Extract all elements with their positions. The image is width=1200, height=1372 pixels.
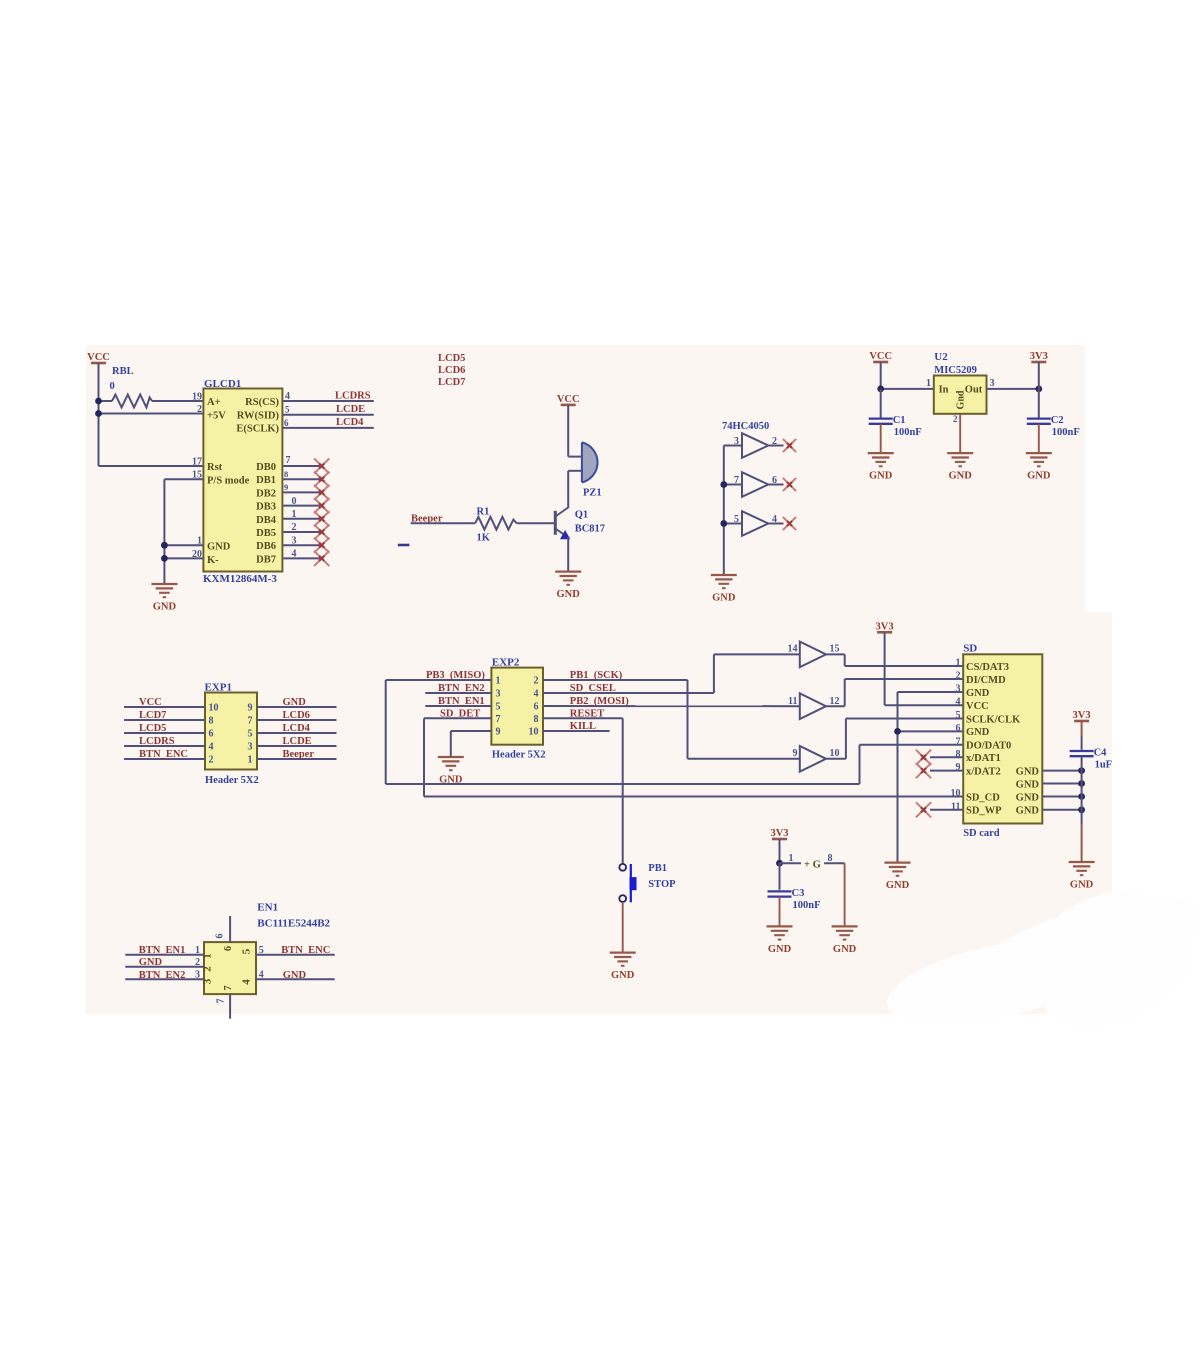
wire VCC rail to U2 [881,388,934,390]
GLCD1 left pin numbers [192,392,202,561]
pin number 8 (G) [828,853,833,864]
power 3V3 (U2) [1030,351,1048,362]
svg-text:2: 2 [195,957,200,968]
wire GLCD1 ground rail vertical [163,479,165,584]
svg-text:DB1: DB1 [256,475,276,486]
svg-text:5: 5 [240,948,252,954]
net label LCDE [283,736,312,747]
svg-text:CS/DAT3: CS/DAT3 [966,662,1009,673]
resistor RBL designator [110,366,134,392]
svg-text:SCLK/CLK: SCLK/CLK [966,714,1021,725]
svg-text:R1: R1 [477,507,490,518]
svg-text:MIC5209: MIC5209 [934,365,977,376]
junction VCC/C1 [877,386,884,393]
svg-text:4: 4 [209,742,214,753]
wire SD GND pin 1 [1042,770,1081,772]
power 3V3 (SD) [876,621,894,632]
wire 3V3 to rail [1038,362,1040,389]
svg-text:3: 3 [202,978,214,984]
svg-text:100nF: 100nF [1052,427,1080,438]
EN1 pin number 6 inside [223,946,234,951]
svg-text:GND: GND [869,471,893,482]
net label BTN_EN2 [438,683,485,694]
svg-text:10: 10 [951,788,961,799]
svg-text:PZ1: PZ1 [583,488,602,499]
wire EXP1 pin 3 [257,745,337,747]
wire VCC to GLCD1 pin 2 [99,413,204,415]
wire GLCD1 DB3 [283,505,321,507]
svg-text:BTN_EN2: BTN_EN2 [438,683,485,694]
no-connect X on DB3 [314,498,329,513]
ground (C1) [868,453,894,482]
resistor R1 [475,517,516,530]
EN1 pin number 7 outside [216,999,227,1004]
svg-text:Rst: Rst [207,462,223,473]
wire Beeper to R1 [411,522,476,524]
svg-text:3: 3 [990,378,995,389]
svg-text:Out: Out [965,385,983,396]
svg-text:GLCD1: GLCD1 [204,378,241,390]
svg-text:3V3: 3V3 [1030,351,1048,362]
svg-text:1: 1 [956,658,961,669]
wire EXP2 pin 9 to ground [451,730,492,732]
wire VCC to RBL [99,400,113,402]
svg-text:VCC: VCC [966,701,989,712]
net label RESET [570,709,604,720]
wire EN1 pin 2 [125,966,204,968]
wire U2 Out to 3V3 [987,388,1039,390]
svg-text:GND: GND [1016,806,1040,817]
net label PB1_(SCK) [570,670,623,681]
wire node to G pin 1 [780,862,802,864]
svg-text:DB2: DB2 [256,488,276,499]
wire MISO vertical [385,680,387,784]
no-connect X x/DAT2 [916,763,931,778]
svg-text:3: 3 [195,970,200,981]
wire GLCD1 pin 15 to ground rail [164,478,203,480]
svg-text:1: 1 [926,378,931,389]
svg-text:6: 6 [223,946,234,951]
EXP1 pin numbers [209,703,253,766]
svg-text:LCD6: LCD6 [438,365,465,376]
wire SD_CD run [424,796,963,798]
net label KILL [570,721,596,732]
net label SD_CSEL [570,683,616,694]
svg-text:GND: GND [611,970,635,981]
svg-text:6: 6 [215,934,226,939]
svg-text:9: 9 [793,748,798,759]
svg-text:5: 5 [496,702,501,713]
svg-text:RESET: RESET [570,709,604,720]
svg-text:LCD7: LCD7 [438,377,465,388]
no-connect X pin 4 [783,517,796,530]
wire U3A output [768,445,783,447]
GLCD1 right pin names [236,397,279,435]
wire EN1 pin 6 top [229,916,231,942]
wire SD gnd rail [897,692,899,863]
svg-text:VCC: VCC [139,697,162,708]
wire C2 top [1038,389,1040,418]
wire C4 rail [1081,756,1083,862]
wire G pin 8 to ground [844,863,846,926]
wire EXP1 pin 4 [124,745,205,747]
svg-text:GND: GND [966,727,990,738]
svg-text:In: In [939,385,949,396]
GLCD1 pin numbers 4,5,6 [284,391,290,428]
svg-text:1: 1 [202,953,214,959]
GLCD1 left pin names [207,397,250,566]
resistor RBL [112,395,152,408]
GLCD1 designator [204,378,241,390]
capacitor C1 100nF [869,415,922,438]
net label PB2_(MOSI) [570,696,629,707]
svg-text:KILL: KILL [570,721,596,732]
ground (EXP2) [438,757,464,786]
capacitor C2 100nF [1027,415,1080,438]
EN1 pin number 6 outside [215,934,226,939]
net label BTN_EN1 [139,945,186,956]
svg-text:GND: GND [1016,766,1040,777]
pin numbers 11/12 [788,696,839,707]
svg-text:C3: C3 [792,888,805,899]
Q1 designator [575,509,588,520]
wire VCC rail to GLCD1 pin 17 [99,465,204,467]
wire EXP2 pin 10 KILL [543,730,610,732]
svg-text:3: 3 [496,689,501,700]
svg-text:DI/CMD: DI/CMD [966,675,1006,686]
wire EXP1 pin 10 [124,706,205,708]
wire GLCD1 E(SCLK) net LCD4 [282,427,373,429]
svg-text:8: 8 [209,716,214,727]
wire VCC to PZ1 pin 1 [567,405,569,457]
svg-text:2: 2 [202,966,214,972]
svg-text:3V3: 3V3 [876,621,894,632]
svg-text:KXM12864M-3: KXM12864M-3 [203,573,277,585]
junction GND/pin1 [161,542,168,549]
svg-text:SD_WP: SD_WP [966,806,1002,817]
pushbutton PB1 actuator [630,864,637,902]
junction 3V3/C2 [1035,386,1042,393]
svg-text:LCD5: LCD5 [438,353,465,364]
pin number 1 (G) [789,853,794,864]
net label VCC [139,697,162,708]
svg-text:8: 8 [534,714,539,725]
svg-text:8: 8 [284,469,288,479]
no-connect X x/DAT1 [916,750,931,765]
svg-text:9: 9 [248,703,253,714]
svg-text:1uF: 1uF [1095,760,1113,771]
svg-text:2: 2 [534,676,539,687]
svg-text:3: 3 [734,436,739,447]
wire PZ1 pin1 stub [568,456,582,458]
svg-text:BTN_EN1: BTN_EN1 [139,945,186,956]
transistor Q1 [555,508,569,539]
wire PB1(SCK) to buffer 9 [688,758,800,760]
no-connect X on DB6 [314,538,329,553]
svg-text:GND: GND [833,944,857,955]
U2 designator [934,351,948,363]
EXP2 Header 5X2 label [492,750,546,761]
ground (C2) [1026,453,1052,482]
svg-text:1K: 1K [477,533,491,544]
svg-text:4: 4 [956,697,961,708]
svg-text:7: 7 [216,999,227,1004]
wire PB1 to ground [622,902,624,953]
no-connect X SD_WP [916,802,931,817]
svg-text:DB6: DB6 [256,541,276,552]
wire VCC to U2 In [880,362,882,389]
svg-text:RS(CS): RS(CS) [245,397,279,408]
power VCC (GLCD1) [87,352,110,363]
svg-text:SD: SD [963,643,977,655]
wire SCLK/CLK in [846,718,963,720]
header EXP2 [491,668,543,745]
svg-text:STOP: STOP [648,879,676,890]
net label LCD6 [283,710,310,721]
component +G [804,860,821,871]
wire U2 Gnd to ground [959,414,961,453]
U2 pin number 1 [926,378,931,389]
wire buffer 12 out [826,705,845,707]
wire SD_CSEL to buffer 14 [714,653,800,655]
svg-text:BTN_ENC: BTN_ENC [281,945,330,956]
EXP2 designator [492,657,520,669]
SD pin numbers [951,658,961,813]
ground (G) [832,926,858,955]
pushbutton PB1 terminal 2 [619,895,626,902]
no-connect X on DB5 [314,524,329,539]
no-connect X on DB2 [314,485,329,500]
capacitor C3 100nF [768,888,821,911]
wire buffer 10 jog [845,719,847,759]
power VCC (buzzer) [557,394,580,405]
svg-text:7: 7 [223,986,234,991]
PB1 designator [648,863,667,874]
svg-text:C2: C2 [1051,415,1064,426]
wire PB1(SCK) drop [687,680,689,759]
wire EXP2 pin 5 [425,705,491,707]
wire GLCD1 RS(CS) net LCDRS [282,400,373,402]
U2 pin number 3 [990,378,995,389]
74HC4050 designator [722,421,769,432]
svg-text:DB0: DB0 [256,462,276,473]
ground (GLCD1) [151,584,177,613]
wire EXP2 pin 9 ground drop [450,731,452,757]
svg-text:U2: U2 [934,351,948,363]
pin numbers 7/6 [734,475,777,486]
svg-text:15: 15 [830,644,840,655]
net label LCD4 [336,417,364,428]
svg-text:6: 6 [534,702,539,713]
svg-text:C1: C1 [893,415,906,426]
net label GND [283,697,307,708]
svg-text:LCDRS: LCDRS [139,736,175,747]
net label BTN_ENC [139,749,188,760]
svg-text:1: 1 [789,853,794,864]
junction C4 rail [1078,780,1085,787]
wire GLCD1 DB7 [283,557,321,559]
svg-text:E(SCLK): E(SCLK) [236,424,279,435]
wire 3V3 to SD VCC [885,704,964,706]
wire MISO horizontal run [386,783,860,785]
pin numbers 9/10 [793,748,840,759]
svg-text:2: 2 [953,414,958,424]
svg-text:4: 4 [259,970,264,981]
svg-text:19: 19 [192,392,202,403]
wire 3V3 to C4 [1081,721,1083,750]
svg-text:4: 4 [534,689,539,700]
svg-text:x/DAT2: x/DAT2 [966,766,1001,777]
ground (PB1) [610,953,636,982]
svg-text:C4: C4 [1094,748,1108,759]
GLCD1 pin numbers 7-14 [284,455,297,560]
svg-text:2: 2 [956,671,961,682]
svg-text:EXP1: EXP1 [205,682,233,694]
svg-text:GND: GND [1027,471,1051,482]
svg-text:3V3: 3V3 [770,828,788,839]
svg-text:10: 10 [529,727,539,738]
svg-text:GND: GND [283,970,307,981]
wire GLCD1 pin 20 K- [164,557,203,559]
svg-text:DO/DAT0: DO/DAT0 [966,741,1011,752]
pin numbers 3/2 [734,436,777,447]
Q1 part BC817 [575,524,605,535]
wire SD_DET vertical [423,718,425,796]
net label LCDRS [139,736,175,747]
U2 pin number 2 [953,414,958,424]
wire GLCD1 DB2 [283,491,321,493]
wire C3 to ground [779,897,781,927]
wire EXP2 pin 3 [425,692,491,694]
svg-text:3V3: 3V3 [1073,710,1091,721]
EXP2 pin numbers [496,676,539,738]
svg-text:10: 10 [209,703,219,714]
sd connector SD [963,654,1042,823]
net label BTN_ENC [281,945,330,956]
wire RESET drop to PB1 [622,718,624,864]
svg-text:LCDRS: LCDRS [335,391,371,402]
wire PB3 (MISO) to EXP2 pin 1 [386,679,492,681]
svg-text:11: 11 [788,696,797,707]
net label LCD6 [438,365,465,376]
svg-text:GND: GND [768,944,792,955]
R1 value 1K [477,533,491,544]
svg-text:DB3: DB3 [256,502,276,513]
capacitor C4 1uF [1070,748,1113,771]
svg-text:GND: GND [153,602,177,613]
net label GND (EN1 pin2) [139,957,163,968]
junction GND/pin20 [161,555,168,562]
buffer U3C (pins 5-4) [742,511,768,536]
wire GLCD1 DB1 [283,478,321,480]
wire RBL to GLCD1 pin 19 [152,400,203,402]
wire SD GND pin 2 [1042,783,1081,785]
svg-text:9: 9 [496,727,501,738]
power 3V3 (C3) [770,828,788,839]
net label GND (EN1 pin4) [283,970,307,981]
wire PZ1 pin2 stub [568,470,582,472]
svg-text:VCC: VCC [87,352,110,363]
wire EN1 pin 1 [125,954,204,956]
junction SD gnd rail [894,728,901,735]
svg-text:DB4: DB4 [256,515,277,526]
wire EXP1 pin 9 [257,706,337,708]
svg-text:5: 5 [259,945,264,956]
wire EN1 pin 5 [256,954,335,956]
ground (U2) [947,453,973,482]
wire GLCD1 DB5 [283,531,321,533]
svg-text:LCDE: LCDE [283,736,312,747]
wire rail to U3A input [724,445,742,447]
svg-text:PB3_(MISO): PB3_(MISO) [426,670,485,681]
U2 pin names [939,385,983,410]
svg-text:BTN_EN2: BTN_EN2 [139,970,186,981]
junction C3 [776,860,783,867]
net label LCD4 [283,723,311,734]
wire SD x/DAT1 [930,756,963,758]
wire GLCD1 DB0 [283,465,321,467]
wire SD_DET to EXP2 pin 7 [424,717,491,719]
svg-text:3: 3 [248,742,253,753]
wire EXP1 pin 1 [257,758,337,760]
EN1 outside pin numbers [195,945,264,981]
svg-text:2: 2 [197,404,202,415]
no-connect X on DB0 [314,458,329,473]
svg-text:GND: GND [886,880,910,891]
wire EXP1 pin 5 [257,732,337,734]
svg-text:PB1_(SCK): PB1_(SCK) [570,670,623,681]
svg-text:BTN_ENC: BTN_ENC [139,749,188,760]
svg-text:7: 7 [496,714,501,725]
wire DI/CMD in [845,678,964,680]
svg-text:LCDE: LCDE [336,404,365,415]
PZ1 designator [583,488,602,499]
svg-text:GND: GND [949,471,973,482]
svg-text:6: 6 [956,723,961,734]
net label BTN_EN2 [139,970,186,981]
svg-text:RW(SID): RW(SID) [237,411,280,422]
wire G pin 8 [824,862,845,864]
regulator U2 MIC5209 [934,376,987,414]
wire buffer 15 jog [844,654,846,666]
svg-text:GND: GND [207,542,231,553]
wire GLCD1 pin 1 GND [164,544,203,546]
ground (C4) [1069,862,1095,891]
svg-text:LCD6: LCD6 [283,710,310,721]
ground (74HC4050) [711,575,737,604]
junction rail/U3B [720,481,727,488]
ground (C3) [767,926,793,955]
PB1 label STOP [648,879,676,890]
svg-text:GND: GND [139,957,163,968]
svg-text:GND: GND [1016,779,1040,790]
net label Beeper [411,514,443,525]
EN1 designator [257,902,278,914]
EXP1 designator [205,682,233,694]
power VCC (U2) [869,351,892,362]
svg-text:SD_CD: SD_CD [966,792,1000,803]
wire C2 to ground [1038,424,1040,453]
pin numbers 14/15 [788,644,840,655]
svg-text:17: 17 [192,457,202,468]
svg-text:1: 1 [195,945,200,956]
pin numbers 5/4 [734,514,777,525]
U2 part MIC5209 [934,365,977,376]
svg-text:8: 8 [828,853,833,864]
wire U3B output [768,484,783,486]
stray mark [398,544,410,547]
SD right GND pin names [1016,766,1040,816]
